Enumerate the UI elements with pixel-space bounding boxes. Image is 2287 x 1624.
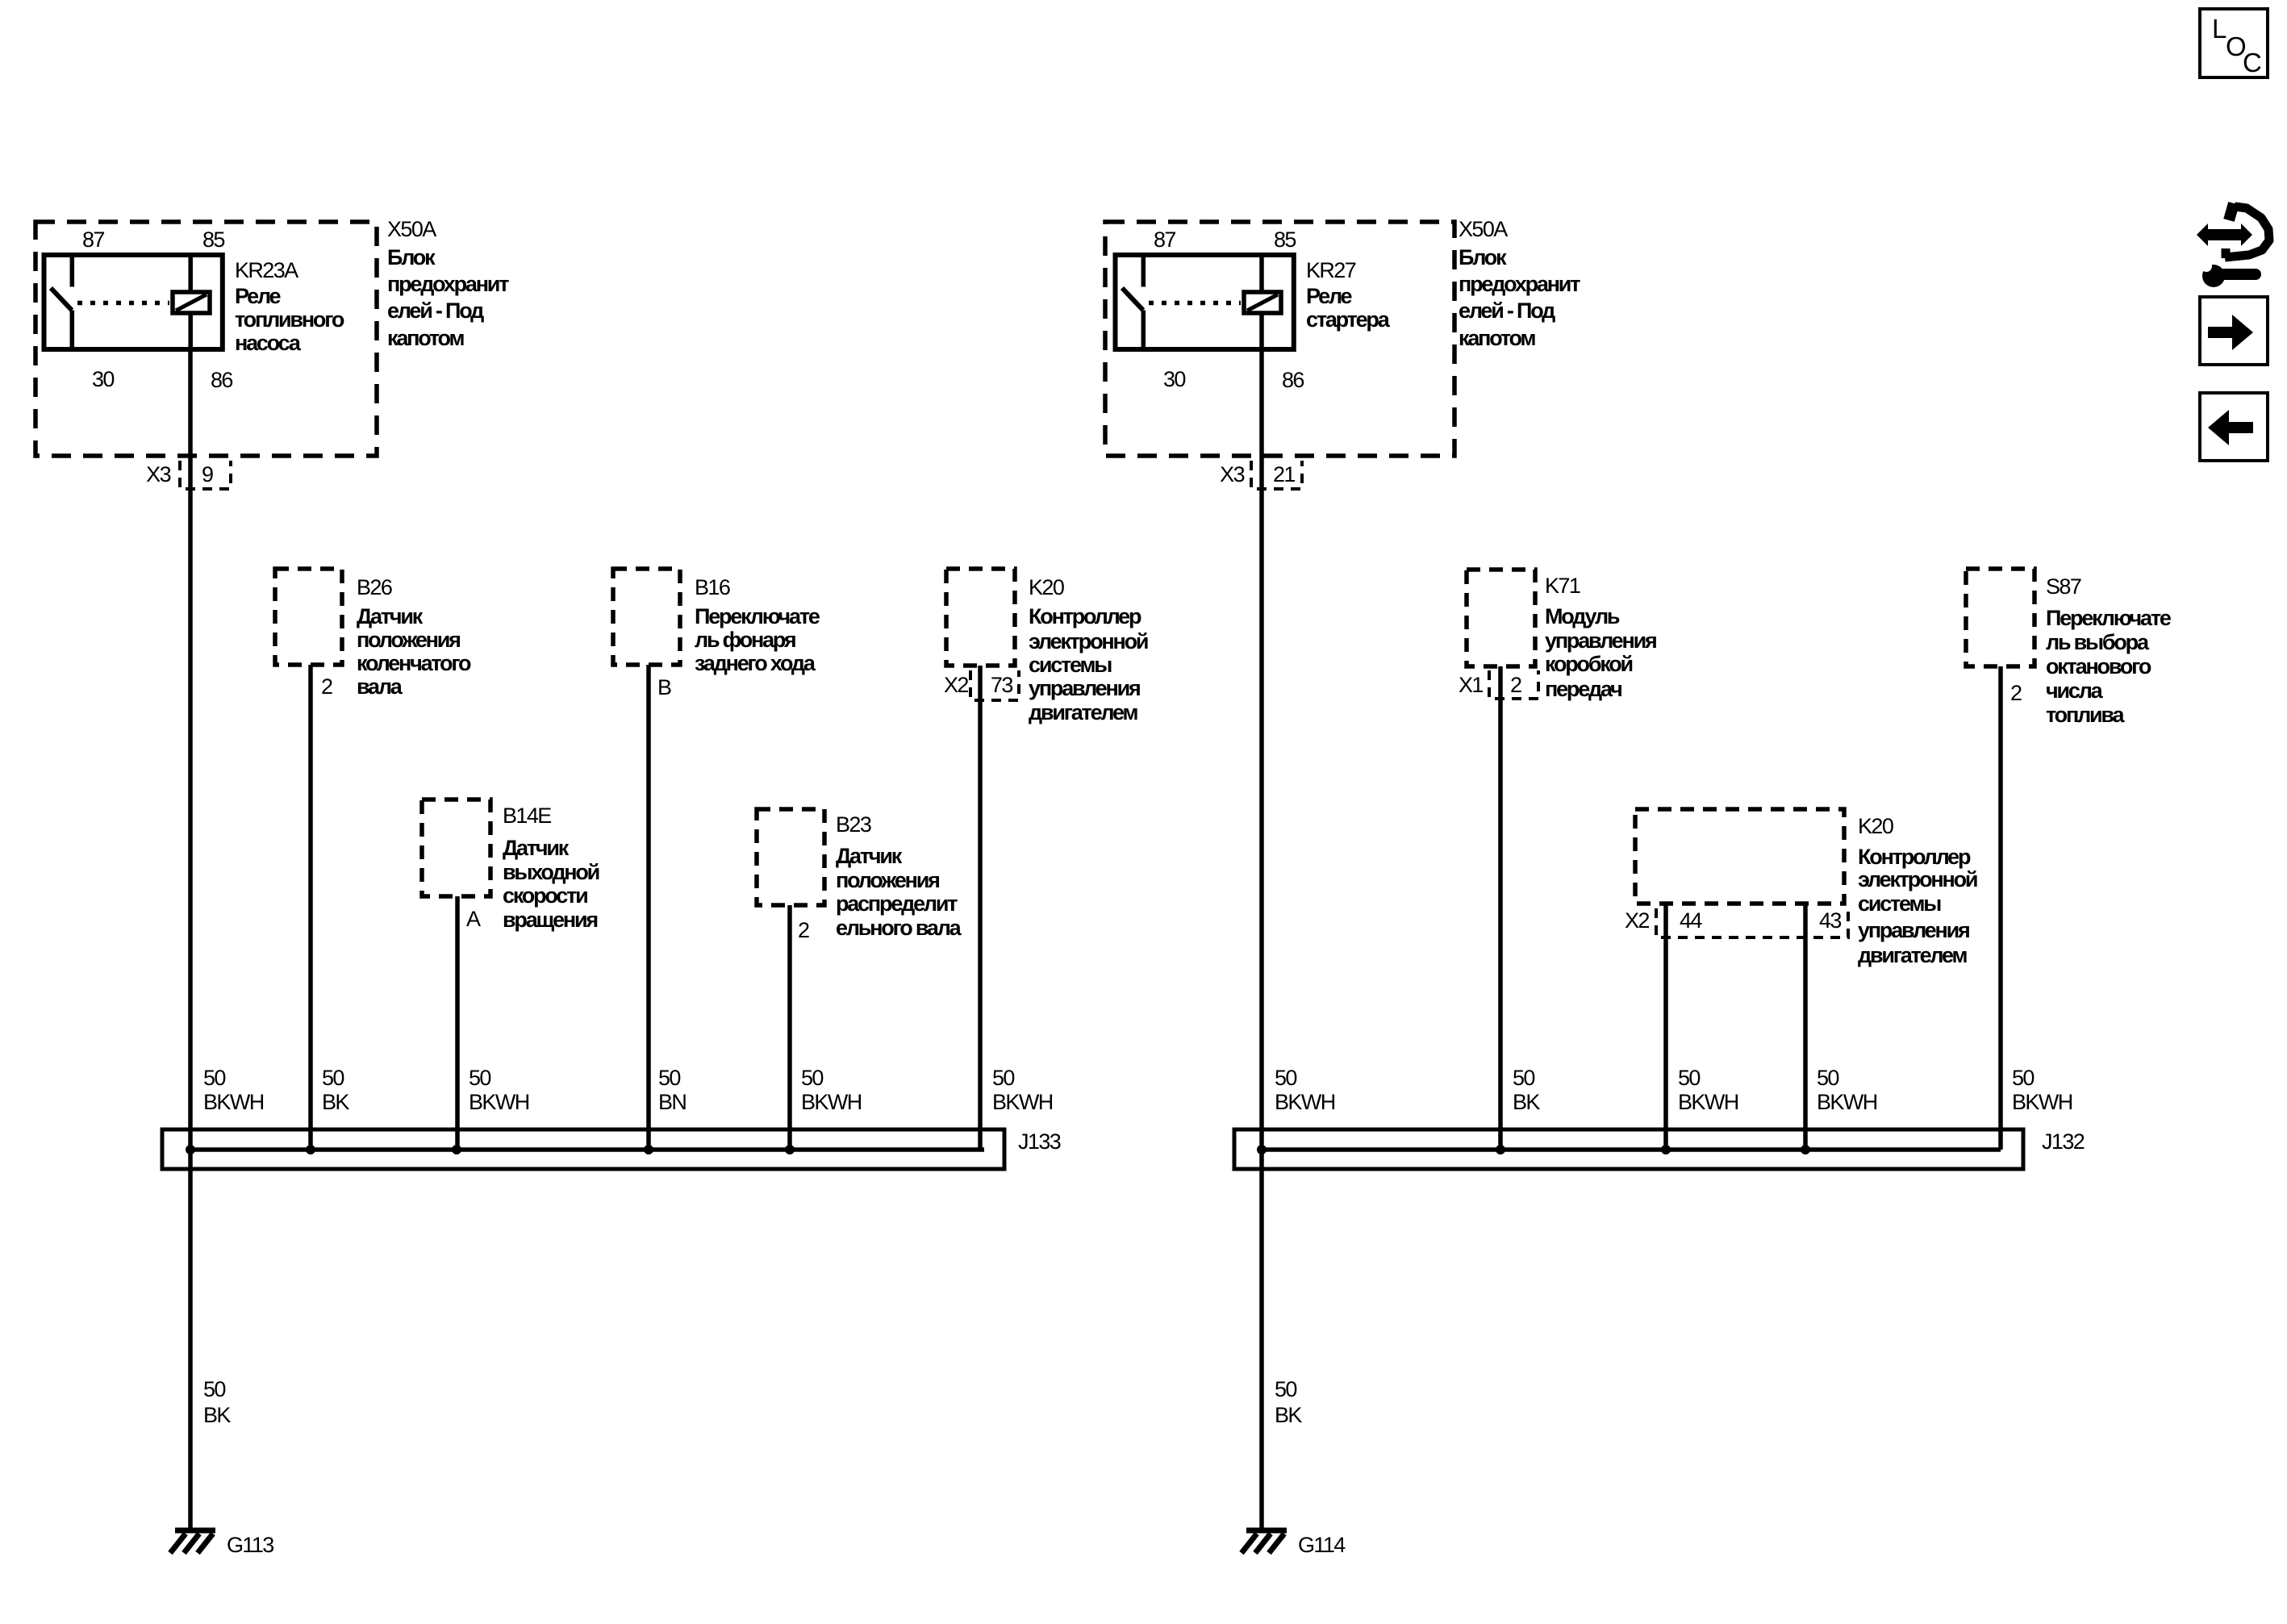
svg-text:B16: B16 xyxy=(695,575,730,599)
switch B16 xyxy=(613,569,820,675)
svg-text:двигателем: двигателем xyxy=(1029,700,1137,724)
svg-text:ль фонаря: ль фонаря xyxy=(695,628,795,652)
junction dots J132 xyxy=(1257,1145,1267,1154)
svg-text:елей - Под: елей - Под xyxy=(1459,298,1555,323)
svg-text:2: 2 xyxy=(1510,673,1521,697)
svg-text:BK: BK xyxy=(1513,1090,1540,1114)
svg-text:системы: системы xyxy=(1858,891,1941,916)
svg-text:вращения: вращения xyxy=(503,908,597,932)
svg-text:капотом: капотом xyxy=(387,326,464,350)
svg-text:топлива: топлива xyxy=(2046,703,2125,727)
svg-text:2: 2 xyxy=(321,674,332,699)
svg-text:насоса: насоса xyxy=(235,331,302,355)
svg-text:J133: J133 xyxy=(1018,1129,1061,1154)
fuse block X50A (right) dashed box xyxy=(1105,217,1580,456)
TCM K71 xyxy=(1467,570,1656,701)
svg-text:Переключате: Переключате xyxy=(695,604,820,628)
svg-text:B26: B26 xyxy=(357,575,392,599)
svg-text:Блок: Блок xyxy=(387,245,436,269)
svg-text:43: 43 xyxy=(1819,908,1841,933)
svg-text:заднего хода: заднего хода xyxy=(695,651,816,675)
svg-text:передач: передач xyxy=(1545,677,1621,701)
connector X3 pin 21 xyxy=(1220,461,1302,489)
legend arrow right box xyxy=(2200,297,2268,365)
wire K20 pin 43 to J132 xyxy=(1803,904,1808,1150)
svg-text:50: 50 xyxy=(1275,1066,1296,1090)
svg-text:управления: управления xyxy=(1858,918,1969,942)
svg-text:BKWH: BKWH xyxy=(801,1090,862,1114)
svg-text:BK: BK xyxy=(203,1403,231,1427)
svg-text:BKWH: BKWH xyxy=(469,1090,529,1114)
svg-text:Датчик: Датчик xyxy=(836,844,903,868)
svg-text:B14E: B14E xyxy=(503,804,551,828)
svg-text:87: 87 xyxy=(82,228,104,252)
repair icon (double arrow, hook, wrench) xyxy=(2197,203,2269,287)
wire S87 to J132 xyxy=(1998,666,2003,1150)
svg-text:Контроллер: Контроллер xyxy=(1029,604,1141,628)
svg-text:K20: K20 xyxy=(1029,575,1064,599)
svg-text:50: 50 xyxy=(992,1066,1014,1090)
svg-text:50: 50 xyxy=(203,1066,225,1090)
svg-text:положения: положения xyxy=(357,628,460,652)
svg-text:50: 50 xyxy=(203,1377,225,1401)
svg-text:50: 50 xyxy=(658,1066,680,1090)
svg-text:Переключате: Переключате xyxy=(2046,606,2172,630)
svg-text:электронной: электронной xyxy=(1029,629,1148,653)
svg-text:X50A: X50A xyxy=(387,217,436,241)
svg-text:50: 50 xyxy=(1817,1066,1838,1090)
svg-text:выходной: выходной xyxy=(503,860,599,884)
svg-text:J132: J132 xyxy=(2042,1129,2085,1154)
svg-text:предохранит: предохранит xyxy=(387,272,509,296)
svg-text:50: 50 xyxy=(322,1066,344,1090)
svg-text:электронной: электронной xyxy=(1858,867,1977,891)
svg-text:елей - Под: елей - Под xyxy=(387,298,484,323)
legend arrow left box xyxy=(2200,393,2268,461)
LOC legend box xyxy=(2200,9,2268,77)
svg-text:BK: BK xyxy=(322,1090,349,1114)
wire B23 to J133 xyxy=(787,905,792,1150)
svg-text:G114: G114 xyxy=(1298,1533,1346,1557)
svg-text:2: 2 xyxy=(2010,681,2022,705)
svg-text:85: 85 xyxy=(1274,228,1296,252)
svg-text:X2: X2 xyxy=(1625,908,1649,933)
wire label 50 BK (right ground wire) xyxy=(1275,1377,1302,1427)
wire K71 to J132 xyxy=(1498,666,1503,1150)
svg-text:BKWH: BKWH xyxy=(2012,1090,2072,1114)
wire B16 to J133 xyxy=(646,665,651,1150)
svg-text:BKWH: BKWH xyxy=(1275,1090,1335,1114)
svg-text:G113: G113 xyxy=(227,1533,273,1557)
svg-text:9: 9 xyxy=(202,462,213,486)
svg-text:Модуль: Модуль xyxy=(1545,604,1620,628)
svg-text:распределит: распределит xyxy=(836,891,958,916)
svg-text:Блок: Блок xyxy=(1459,245,1507,269)
fuse block X50A (left) dashed box xyxy=(35,217,509,456)
wire B26 to J133 xyxy=(308,665,313,1150)
wire label 50 BK (left ground wire) xyxy=(203,1377,231,1427)
svg-text:Контроллер: Контроллер xyxy=(1858,845,1971,869)
sensor B26 xyxy=(275,569,471,699)
svg-text:73: 73 xyxy=(991,673,1012,697)
svg-text:BKWH: BKWH xyxy=(1678,1090,1738,1114)
svg-text:X1: X1 xyxy=(1459,673,1483,697)
svg-text:50: 50 xyxy=(1513,1066,1534,1090)
svg-text:BKWH: BKWH xyxy=(203,1090,264,1114)
svg-text:50: 50 xyxy=(1678,1066,1700,1090)
svg-text:85: 85 xyxy=(202,228,224,252)
svg-text:BKWH: BKWH xyxy=(992,1090,1053,1114)
svg-text:K20: K20 xyxy=(1858,814,1893,838)
ECM K20 (upper) xyxy=(946,569,1148,724)
svg-text:капотом: капотом xyxy=(1459,326,1535,350)
svg-text:двигателем: двигателем xyxy=(1858,943,1967,967)
splice pack J132 xyxy=(1234,1129,2085,1169)
svg-text:ль выбора: ль выбора xyxy=(2046,630,2150,654)
svg-text:октанового: октанового xyxy=(2046,654,2151,678)
svg-text:X2: X2 xyxy=(944,673,968,697)
svg-text:управления: управления xyxy=(1545,628,1656,653)
switch S87 xyxy=(1966,569,2172,727)
wire K20 pin 44 to J132 xyxy=(1663,904,1668,1150)
svg-text:S87: S87 xyxy=(2046,574,2081,599)
svg-text:вала: вала xyxy=(357,674,403,699)
svg-text:скорости: скорости xyxy=(503,883,587,908)
ground G114 xyxy=(1242,1530,1346,1557)
wire labels right bus xyxy=(1275,1066,2072,1114)
svg-text:50: 50 xyxy=(2012,1066,2034,1090)
wire KR27 pin 86 to G114 xyxy=(1259,349,1264,1530)
connector X2 pin 73 xyxy=(944,670,1019,700)
svg-text:положения: положения xyxy=(836,868,939,892)
sensor B14E xyxy=(422,799,599,932)
ECM K20 (lower) xyxy=(1635,809,1977,967)
connector X2 pins 44 43 xyxy=(1625,908,1848,937)
svg-text:KR27: KR27 xyxy=(1306,258,1356,282)
connector X1 pin 2 xyxy=(1459,670,1538,699)
junction dots J133 xyxy=(186,1145,195,1154)
wire labels left bus xyxy=(203,1066,1053,1114)
svg-text:X3: X3 xyxy=(146,462,170,486)
svg-text:Датчик: Датчик xyxy=(503,836,570,860)
relay KR27 xyxy=(1116,255,1391,349)
svg-text:ельного вала: ельного вала xyxy=(836,916,962,940)
wire B14E to J133 xyxy=(455,896,460,1150)
svg-text:X50A: X50A xyxy=(1459,217,1508,241)
svg-text:числа: числа xyxy=(2046,678,2104,703)
splice pack J133 xyxy=(162,1129,1061,1169)
svg-text:A: A xyxy=(466,907,481,931)
svg-text:Реле: Реле xyxy=(1306,284,1353,308)
svg-text:B23: B23 xyxy=(836,812,871,837)
connector X3 pin 9 xyxy=(146,461,231,489)
svg-text:50: 50 xyxy=(1275,1377,1296,1401)
svg-text:86: 86 xyxy=(1282,368,1304,392)
svg-text:2: 2 xyxy=(798,918,809,942)
svg-text:управления: управления xyxy=(1029,676,1140,700)
ground G113 xyxy=(170,1530,273,1557)
svg-text:21: 21 xyxy=(1273,462,1295,486)
wire KR23A pin 86 to G113 xyxy=(188,349,193,1530)
svg-text:50: 50 xyxy=(801,1066,823,1090)
svg-text:50: 50 xyxy=(469,1066,490,1090)
svg-text:системы: системы xyxy=(1029,653,1112,677)
svg-text:K71: K71 xyxy=(1545,574,1580,598)
relay KR23A xyxy=(44,255,344,355)
sensor B23 xyxy=(757,809,962,940)
svg-text:коленчатого: коленчатого xyxy=(357,651,471,675)
svg-text:коробкой: коробкой xyxy=(1545,652,1633,676)
svg-text:BKWH: BKWH xyxy=(1817,1090,1877,1114)
svg-text:87: 87 xyxy=(1154,228,1175,252)
svg-text:топливного: топливного xyxy=(235,307,344,332)
svg-text:Датчик: Датчик xyxy=(357,604,424,628)
svg-text:C: C xyxy=(2243,48,2261,77)
wire K20 pin 73 to J133 xyxy=(978,666,983,1150)
svg-text:86: 86 xyxy=(211,368,232,392)
svg-text:X3: X3 xyxy=(1220,462,1244,486)
svg-text:Реле: Реле xyxy=(235,284,282,308)
svg-text:стартера: стартера xyxy=(1306,307,1391,332)
svg-text:44: 44 xyxy=(1680,908,1702,933)
svg-text:BK: BK xyxy=(1275,1403,1302,1427)
svg-text:30: 30 xyxy=(1163,367,1185,391)
svg-text:KR23A: KR23A xyxy=(235,258,298,282)
svg-text:30: 30 xyxy=(92,367,114,391)
svg-text:L: L xyxy=(2212,14,2226,44)
svg-text:предохранит: предохранит xyxy=(1459,272,1580,296)
svg-text:BN: BN xyxy=(658,1090,686,1114)
svg-text:B: B xyxy=(657,675,671,699)
